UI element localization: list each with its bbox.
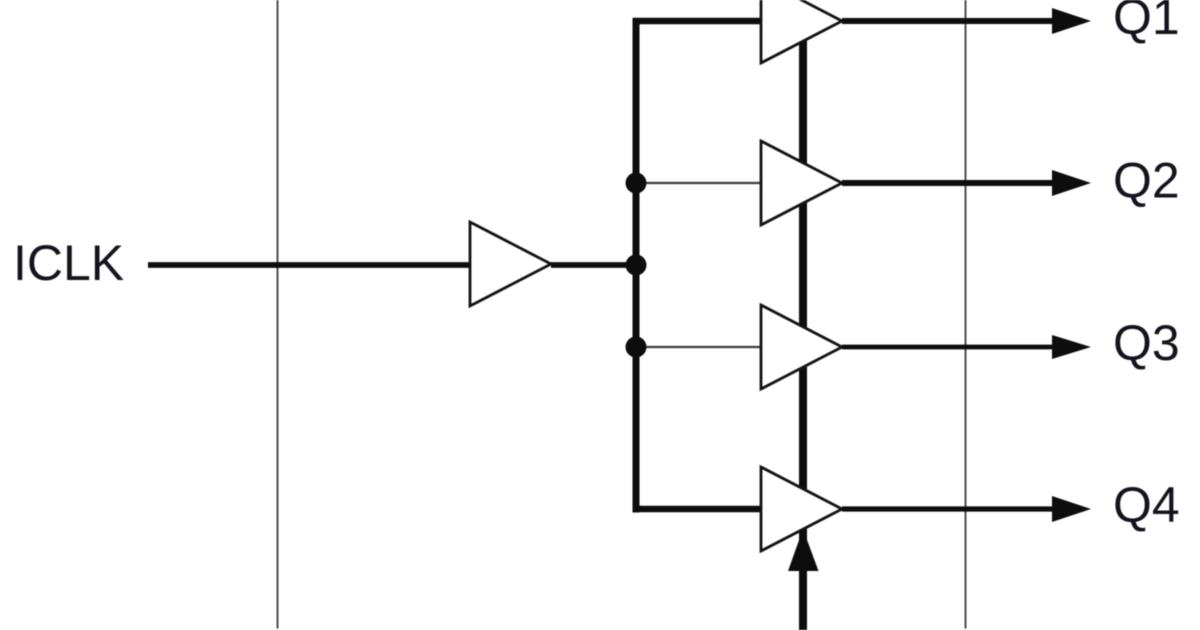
svg-text:Q4: Q4 bbox=[1113, 477, 1180, 533]
svg-text:Q1: Q1 bbox=[1113, 0, 1180, 45]
svg-text:Q3: Q3 bbox=[1113, 315, 1180, 371]
svg-text:ICLK: ICLK bbox=[13, 235, 124, 291]
svg-text:Q2: Q2 bbox=[1113, 153, 1180, 209]
